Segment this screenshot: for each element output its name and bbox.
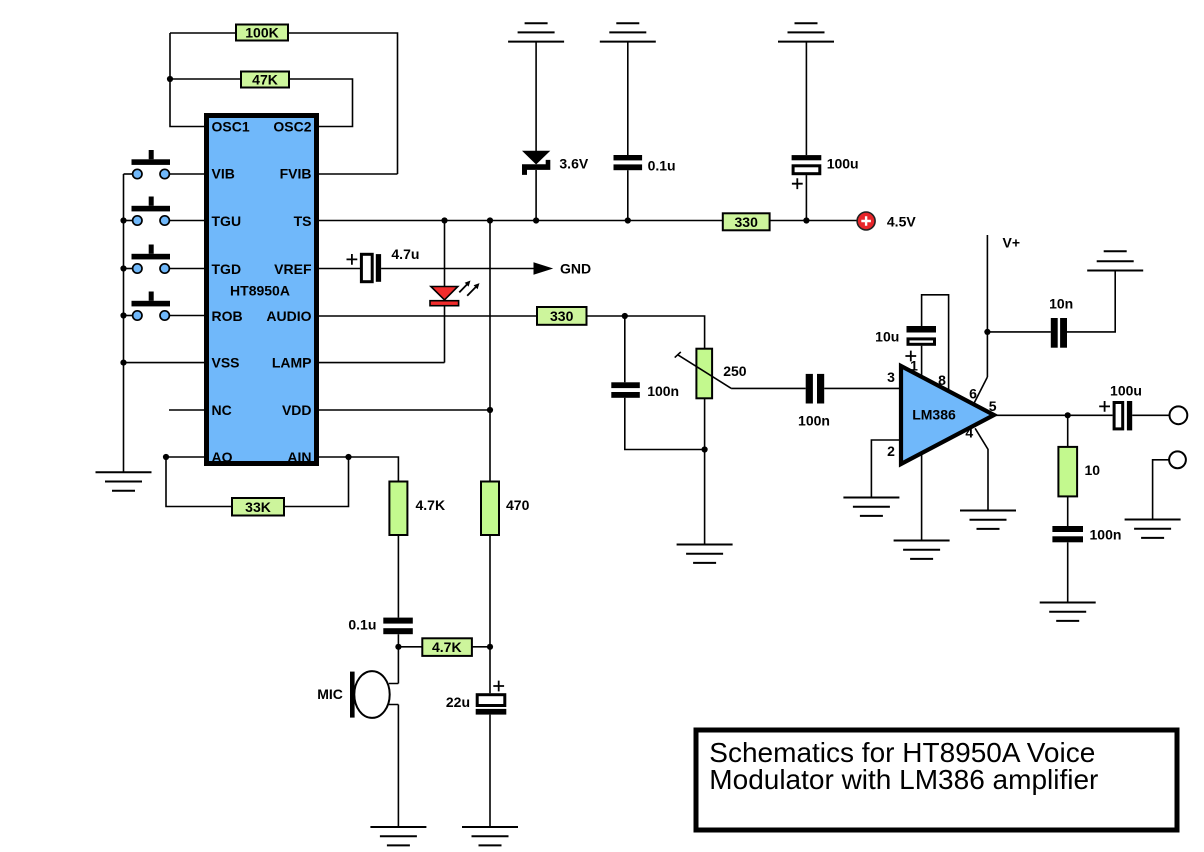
ground pin4 xyxy=(960,511,1016,529)
svg-text:AO: AO xyxy=(212,449,233,465)
capacitor C 10u gain xyxy=(905,326,936,361)
wire 100u to jack xyxy=(1132,414,1169,416)
junction node OSC1/47K xyxy=(167,76,173,82)
wire coupling cap to pin3 xyxy=(824,387,901,389)
svg-text:FVIB: FVIB xyxy=(280,166,312,182)
svg-text:HT8950A: HT8950A xyxy=(230,283,290,299)
wire VIB button to IC xyxy=(170,173,204,175)
resistor 100K xyxy=(236,25,288,41)
svg-text:22u: 22u xyxy=(446,694,470,710)
junction 0.1u TS xyxy=(625,217,631,223)
svg-text:100K: 100K xyxy=(245,25,278,41)
svg-text:8: 8 xyxy=(938,372,946,388)
wire AIN to R4.7K xyxy=(349,457,399,482)
resistor R330 TS xyxy=(723,213,770,230)
svg-text:0.1u: 0.1u xyxy=(648,157,676,173)
svg-text:470: 470 xyxy=(506,497,530,513)
wire 4.7u to GND arrow xyxy=(381,268,534,270)
wire pin1 vertical xyxy=(921,346,923,378)
wire pot bottom to ground xyxy=(704,398,706,544)
output terminal top xyxy=(1170,406,1188,424)
wire 0.1u top xyxy=(627,42,629,155)
svg-text:OSC1: OSC1 xyxy=(212,119,250,135)
wire TGU button left xyxy=(124,220,133,222)
svg-text:5: 5 xyxy=(989,398,997,414)
wire TS to LED xyxy=(444,221,446,288)
svg-text:4.5V: 4.5V xyxy=(887,213,916,229)
wire jack bottom to ground xyxy=(1153,460,1170,520)
wire 100u bottom xyxy=(805,175,807,220)
svg-text:330: 330 xyxy=(550,308,574,324)
svg-text:VDD: VDD xyxy=(282,402,312,418)
svg-text:V+: V+ xyxy=(1003,235,1021,251)
svg-text:10n: 10n xyxy=(1049,296,1073,312)
wire 47K left xyxy=(170,78,240,80)
ground 22u xyxy=(462,827,518,845)
svg-text:4: 4 xyxy=(965,424,973,440)
wire 10u loop to pin8 xyxy=(922,295,949,392)
svg-text:TGU: TGU xyxy=(212,213,242,229)
wire 0.1u bottom xyxy=(627,170,629,220)
svg-text:100n: 100n xyxy=(1090,527,1122,543)
ground zobel xyxy=(1040,603,1096,621)
resistor R 470 vertical xyxy=(481,482,499,536)
junction zener TS xyxy=(533,217,539,223)
wire zener top xyxy=(535,42,537,151)
resistor R 10 xyxy=(1058,447,1077,497)
wire mic to ground xyxy=(397,705,399,828)
resistor R 4.7K vertical xyxy=(389,482,407,536)
wire TS rail left of R330 xyxy=(319,220,722,222)
pushbutton S4 ROB xyxy=(132,292,171,321)
svg-text:4.7K: 4.7K xyxy=(416,497,446,513)
svg-text:250: 250 xyxy=(723,363,747,379)
wire VIB button left xyxy=(124,173,133,175)
ground pin2 xyxy=(843,498,899,516)
ground above zener xyxy=(508,23,564,41)
capacitor C 100n coupling xyxy=(806,374,825,404)
output terminal bottom xyxy=(1169,451,1186,468)
capacitor C 0.1u top xyxy=(614,155,643,170)
wire AO xyxy=(166,457,232,507)
wire bottom pin to ground xyxy=(921,452,923,541)
wire 22u to ground xyxy=(489,715,491,827)
wire pin4 diagonal xyxy=(975,428,988,510)
svg-text:4.7K: 4.7K xyxy=(432,639,462,655)
wire LAMP xyxy=(319,362,445,364)
op-amp U2 LM386 xyxy=(901,366,994,464)
wire 10n to ground xyxy=(1067,271,1115,332)
capacitor C 22u xyxy=(476,681,507,715)
svg-text:AIN: AIN xyxy=(287,449,311,465)
ground bottom pin xyxy=(894,541,950,559)
svg-text:10u: 10u xyxy=(875,329,899,345)
ground above C 100u xyxy=(778,23,834,41)
svg-text:3: 3 xyxy=(887,369,895,385)
junction 100u TS xyxy=(803,217,809,223)
wire C0.1u to mic xyxy=(397,634,399,683)
junction LED TS xyxy=(441,217,447,223)
wire TS rail right of R330 xyxy=(771,220,858,222)
resistor R 4.7K mic xyxy=(422,638,472,656)
svg-text:OSC2: OSC2 xyxy=(273,119,311,135)
wire VSS xyxy=(124,362,205,364)
wire VREF to 4.7u xyxy=(319,268,360,270)
svg-text:100n: 100n xyxy=(798,413,830,429)
junction bus ROB xyxy=(120,312,126,318)
resistor 47K xyxy=(241,72,289,88)
wire FVIB xyxy=(319,173,398,175)
junction bus TGU xyxy=(120,217,126,223)
junction 470 4.7K xyxy=(487,644,493,650)
wire button bus vertical xyxy=(123,174,125,472)
junction output R10 xyxy=(1065,412,1071,418)
IC U1 HT8950A body xyxy=(207,116,317,466)
capacitor C 0.1u mic xyxy=(383,618,413,635)
svg-text:VSS: VSS xyxy=(212,355,240,371)
svg-text:33K: 33K xyxy=(245,499,271,515)
svg-text:330: 330 xyxy=(735,214,759,230)
ground above C 0.1u xyxy=(600,23,656,41)
wire 100n zobel to ground xyxy=(1067,542,1069,602)
wire pin5 output xyxy=(994,414,1113,416)
wire TGU button to IC xyxy=(170,220,204,222)
capacitor C 100u output xyxy=(1099,401,1132,430)
svg-text:Modulator with LM386 amplifier: Modulator with LM386 amplifier xyxy=(709,764,1098,795)
wire pot wiper to coupling cap xyxy=(731,387,806,389)
wire TGD button to IC xyxy=(170,268,204,270)
ground bus bottom xyxy=(96,472,152,490)
junction bus TGD xyxy=(120,265,126,271)
capacitor C 100n filter xyxy=(611,382,640,398)
wire OSC1-100K top left xyxy=(170,32,235,34)
svg-text:100n: 100n xyxy=(647,383,679,399)
wire TGD button left xyxy=(124,268,133,270)
wire NC stub xyxy=(169,409,204,411)
svg-text:100u: 100u xyxy=(827,156,859,172)
wire R4.7K to C0.1u xyxy=(397,535,399,618)
wire V+ to 10n xyxy=(987,331,1050,333)
svg-text:0.1u: 0.1u xyxy=(348,616,376,632)
svg-text:MIC: MIC xyxy=(317,686,343,702)
wire mic-junction to 4.7K xyxy=(398,646,422,648)
capacitor C 100u supply xyxy=(792,155,822,189)
junction pot bottom xyxy=(702,446,708,452)
junction AO xyxy=(163,454,169,460)
zener D1 3.6V xyxy=(522,151,550,175)
capacitor C 4.7u xyxy=(347,254,382,282)
junction bus VSS xyxy=(120,360,126,366)
wire R330 to pot top xyxy=(587,316,705,348)
svg-text:TS: TS xyxy=(294,213,312,229)
svg-text:TGD: TGD xyxy=(212,261,242,277)
svg-text:AUDIO: AUDIO xyxy=(266,308,311,324)
wire pin6 diagonal xyxy=(974,377,988,404)
wire 33K to AIN xyxy=(284,457,349,507)
svg-text:4.7u: 4.7u xyxy=(391,246,419,262)
capacitor C 10n xyxy=(1051,318,1067,348)
svg-text:3.6V: 3.6V xyxy=(559,156,588,172)
svg-text:GND: GND xyxy=(560,261,591,277)
wire zener bottom xyxy=(535,170,537,221)
svg-text:2: 2 xyxy=(887,443,895,459)
wire V+ vertical xyxy=(986,235,988,377)
wire LED to LAMP xyxy=(444,306,446,363)
wire R10 to 100n xyxy=(1067,496,1069,526)
wire 470 to 22u xyxy=(489,535,491,693)
title box xyxy=(696,730,1177,830)
ground 10n top xyxy=(1087,251,1143,270)
junction AUDIO C100n xyxy=(622,313,628,319)
junction mic 4.7K xyxy=(395,644,401,650)
capacitor C 100n zobel xyxy=(1052,526,1083,542)
wire R10 top xyxy=(1067,415,1069,447)
junction AIN xyxy=(345,454,351,460)
svg-text:VREF: VREF xyxy=(274,261,312,277)
net label GND arrow xyxy=(534,262,554,274)
wire ROB button left xyxy=(124,315,133,317)
svg-text:47K: 47K xyxy=(252,72,278,88)
wire 47K right to OSC2 xyxy=(289,79,353,127)
potentiometer VR 250 body xyxy=(675,349,731,399)
svg-text:VIB: VIB xyxy=(212,166,235,182)
wire C100n bottom xyxy=(625,398,705,450)
svg-text:100u: 100u xyxy=(1110,382,1142,398)
pushbutton S2 TGU xyxy=(132,197,171,226)
pushbutton S1 VIB xyxy=(132,150,171,179)
ground mic xyxy=(370,827,426,845)
svg-text:10: 10 xyxy=(1085,462,1101,478)
svg-text:LM386: LM386 xyxy=(912,407,956,423)
wire C100n top xyxy=(624,316,626,382)
wire ROB button to IC xyxy=(170,315,204,317)
junction VDD branch xyxy=(487,407,493,413)
LED D2 xyxy=(430,281,480,306)
wire left vertical OSC1 xyxy=(170,33,204,127)
junction V+ 10n xyxy=(984,329,990,335)
resistor R330 AUDIO xyxy=(537,307,587,325)
supply node 4.5V xyxy=(857,212,875,230)
wire pin2 to ground xyxy=(871,440,901,498)
pushbutton S3 TGD xyxy=(132,245,171,274)
junction TS VDD branch xyxy=(487,217,493,223)
wire VDD xyxy=(319,409,490,411)
svg-text:ROB: ROB xyxy=(212,308,243,324)
wire VDD vertical from TS to R470 xyxy=(489,221,491,482)
wire 4.7K to 470 line xyxy=(472,646,490,648)
ground jack xyxy=(1125,520,1181,538)
ground pot xyxy=(677,545,733,563)
microphone MIC xyxy=(350,671,398,718)
resistor R 33K xyxy=(232,498,284,516)
wire 100u top xyxy=(805,42,807,156)
wire AUDIO to R330 xyxy=(319,315,537,317)
svg-text:NC: NC xyxy=(212,402,232,418)
wire 100K right to FVIB vertical xyxy=(289,33,398,174)
svg-text:LAMP: LAMP xyxy=(272,355,312,371)
